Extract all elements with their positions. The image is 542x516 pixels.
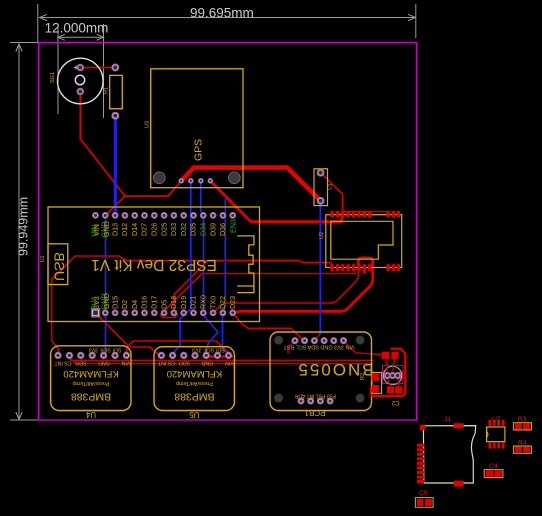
svg-text:SCK: SCK [203,347,214,353]
wire branch to ESP32 GND top pad [106,196,125,215]
BNO055 pads [292,338,346,404]
svg-text:99.949mm: 99.949mm [17,197,31,256]
resistor R3 [513,416,531,430]
svg-text:SDO: SDO [179,360,190,366]
svg-text:C1: C1 [328,183,334,190]
svg-text:D22: D22 [218,296,227,309]
svg-text:D36: D36 [218,223,227,236]
svg-text:D16: D16 [140,296,149,309]
svg-text:D18: D18 [169,296,178,309]
wire stub into U2 pad3 [340,215,343,222]
ESP32 Dev Kit V1 module U1 outline [48,207,260,322]
BNO055 mounting holes [274,336,364,403]
svg-text:D33: D33 [169,223,178,236]
svg-text:J1: J1 [444,416,451,423]
svg-text:D15: D15 [110,296,119,309]
connector J1 (SD card) [417,416,476,487]
GPS mounting holes [153,172,165,184]
wire SG1 bottom / GND net to GPS pad1 [80,92,181,197]
C1 pads [317,169,324,204]
svg-text:D4: D4 [130,300,139,309]
SG1 pads [77,64,83,94]
svg-text:D2: D2 [120,300,129,309]
svg-text:SG1: SG1 [50,72,56,83]
svg-text:BMP388: BMP388 [71,391,111,403]
svg-text:VIN: VIN [225,360,234,366]
wire to U4 VIN pad [126,346,128,356]
svg-text:USB: USB [52,252,68,281]
svg-text:R2: R2 [360,373,366,380]
wire to U5 VIN pad [128,341,229,355]
svg-text:D26: D26 [150,223,159,236]
wire D22 to BNO055 pad2 [233,313,304,341]
svg-text:VIN: VIN [90,225,99,237]
blue B.Cu: R1 bottom to D13 [114,116,117,214]
svg-text:CS INT: CS INT [157,360,175,366]
capacitor C3 pads [382,352,389,359]
ESP32 top row pin labels [90,219,238,237]
svg-text:D34: D34 [199,223,208,236]
svg-text:U5: U5 [189,410,200,419]
wire GPS pad4 to U2 top pads [210,181,341,222]
svg-text:EN3: EN3 [228,219,237,233]
svg-text:D35: D35 [189,223,198,236]
svg-text:D25: D25 [159,223,168,236]
wire SG1 top to R1 [80,67,115,69]
GPS module U3 [145,69,244,188]
svg-text:KFLMAM420: KFLMAM420 [167,368,222,379]
ESP32 header pads top row [93,213,236,219]
red fills beside transistor pads [383,372,388,380]
U4 pads [55,352,129,358]
buzzer SG1 [50,58,103,104]
transistor circle [383,366,401,384]
blue GPS pad3 to D34 [201,181,203,215]
wire via to BNO055 SDA pad [314,334,320,341]
svg-text:C4: C4 [489,463,498,470]
svg-text:TX0: TX0 [208,296,217,309]
resistor R2 outline [372,373,382,394]
wire TX0 to U2 hook (inner) [213,266,358,313]
blue GPS pad2 down through D19 to U5 pad2 [173,181,191,356]
svg-text:D12: D12 [120,223,129,236]
svg-text:99.695mm: 99.695mm [190,6,254,21]
BMP388 module U4 [51,346,131,419]
wire U5 GND short thick [204,355,232,357]
svg-text:GPS: GPS [193,139,205,161]
svg-text:Press/Alt/Temp: Press/Alt/Temp [73,380,110,386]
ESP32 header pads bottom row [91,309,235,317]
svg-text:R3: R3 [518,416,527,423]
wire branch diagonal to D18 pad [174,260,208,313]
wire 3V3 fan junction [96,313,129,346]
transistor Q pads [385,373,401,379]
U2 SMD pads [330,211,400,274]
svg-text:D23: D23 [228,296,237,309]
wire hook below D5/D18 pads [161,311,178,318]
svg-text:D32: D32 [179,223,188,236]
blue via through D22 to U5 pad7 [223,199,229,355]
dimension 99.949mm vertical [10,43,38,421]
module U2 outline [326,215,402,268]
svg-text:U4: U4 [85,410,96,419]
svg-text:3V3: 3V3 [89,347,98,353]
wire D5 net: U2 area to D5 pad with hook [164,274,356,311]
svg-text:U7: U7 [492,416,501,423]
svg-text:C2: C2 [391,399,399,405]
svg-text:VIN 3V3 GND SDA SCL RST: VIN 3V3 GND SDA SCL RST [283,344,355,350]
ESP32 bottom row pin labels [90,293,237,309]
svg-text:R1: R1 [104,87,110,94]
R2 pads [372,374,379,381]
svg-text:D5: D5 [159,300,168,309]
svg-text:3V3: 3V3 [192,347,201,353]
capacitor C2 pads [387,386,394,393]
svg-text:VIN: VIN [121,360,130,366]
wire to U5 CSINT pad [130,347,161,356]
capacitor C5 [415,490,433,507]
svg-text:Press/Alt/Temp: Press/Alt/Temp [176,380,213,386]
svg-text:D17: D17 [150,296,159,309]
svg-text:BMP388: BMP388 [174,391,214,403]
svg-text:SDI: SDI [113,347,122,353]
wire long horizontal D18 net: USB area to U2 bottom pad1 [75,256,332,264]
svg-text:D14: D14 [130,223,139,236]
transistor inner connections [385,357,398,386]
resistor R1 [104,75,123,108]
R2 / C2 / C3 / Q cluster right of BNO055 [360,349,405,405]
svg-text:ESP32 Dev Kit V1: ESP32 Dev Kit V1 [91,256,217,273]
board edge (Edge.Cuts) [39,43,417,421]
svg-text:U1: U1 [40,255,46,262]
svg-text:SDI: SDI [216,347,225,353]
svg-text:D13: D13 [110,223,119,236]
R1 pads [112,64,119,119]
wire C1 top pad to U2 right pads [321,173,389,214]
svg-text:SDO: SDO [75,360,86,366]
svg-text:GND: GND [99,222,108,238]
svg-text:D21: D21 [189,296,198,309]
wire bundle U4 to R2 (upper) [67,357,374,361]
wire BNO055 RST to C3 [344,341,383,355]
svg-text:D19: D19 [179,296,188,309]
svg-text:GND: GND [98,360,110,366]
BMP388 module U5 [154,347,234,420]
dimension 12.000mm [58,24,104,118]
svg-text:CS INT: CS INT [54,360,72,366]
dimension 99.695mm horizontal [38,4,416,42]
blue D34 down through D21 zigzag to U5 pad5 [202,217,218,355]
wire bundle stub to BNO055 VIN pad [288,341,295,353]
blue C1 bottom to BNO055 [319,203,321,335]
red wrap trace around cluster [371,349,405,396]
svg-text:D27: D27 [140,223,149,236]
wire thick GND: GPS pad1 to C1 bottom pad [181,168,320,201]
svg-text:C5: C5 [419,490,428,497]
svg-text:GND: GND [99,294,108,310]
svg-text:SCK: SCK [100,347,111,353]
wire bundle U4 to R2 (lower) [69,357,373,364]
svg-text:12.000mm: 12.000mm [45,21,109,36]
svg-text:PCB1: PCB1 [304,408,325,417]
svg-text:GND: GND [201,360,213,366]
svg-text:RX0: RX0 [199,295,208,309]
GPS pads [179,179,213,184]
blue ESP32 GND to U4 GND [105,215,107,352]
wire USB left vertical down to U4 pad1 [52,256,75,355]
BNO055 module PCB1 [270,332,374,417]
transistor courtyard [383,365,403,383]
svg-text:U3: U3 [145,121,151,128]
IC U7 [487,416,505,449]
capacitor C4 [484,463,503,478]
resistor R4 [513,440,531,454]
svg-text:U2: U2 [319,232,325,239]
wire D23 to U2 hook (outer arch) [233,258,373,313]
svg-text:3V3: 3V3 [90,297,99,310]
svg-text:KFLMAM420: KFLMAM420 [63,368,118,379]
capacitor C1 [314,169,334,206]
svg-text:R4: R4 [518,440,527,447]
U5 pads [158,352,231,358]
svg-text:D39: D39 [208,223,217,236]
